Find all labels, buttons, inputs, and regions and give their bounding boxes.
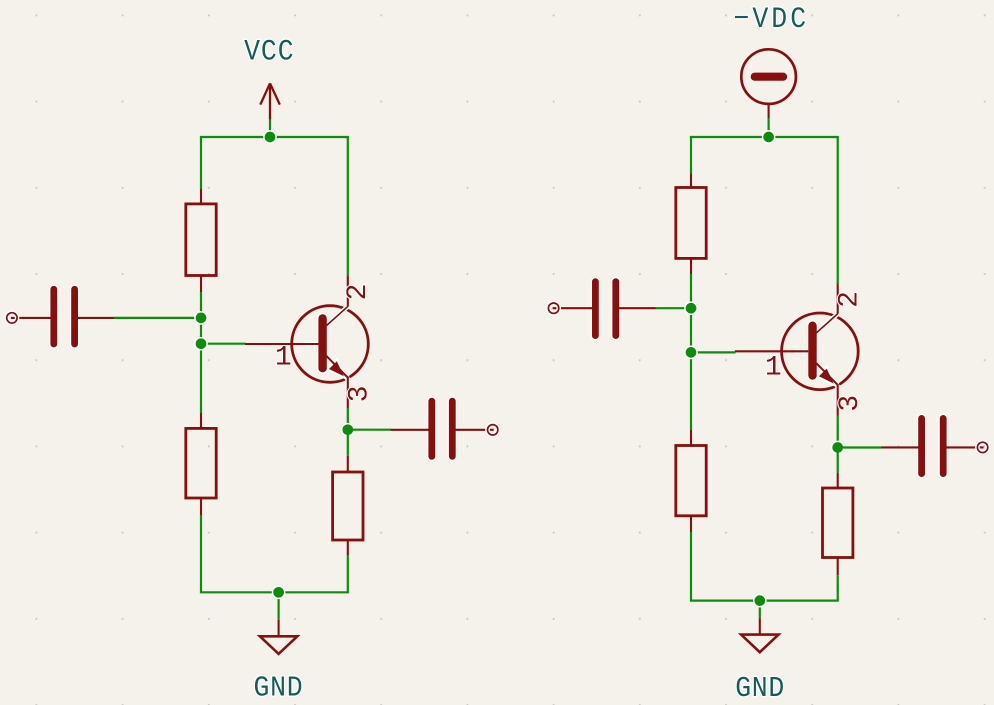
wire [690, 274, 692, 430]
wire [837, 137, 839, 284]
svg-text:1: 1 [765, 352, 782, 383]
wire [690, 136, 839, 138]
wire [347, 556, 349, 593]
resistor R6 [823, 473, 853, 576]
wire [837, 415, 839, 447]
wire [838, 446, 882, 448]
wire [837, 575, 839, 600]
capacitor C4 [881, 414, 988, 479]
transistor Q2 [735, 283, 858, 416]
wire [200, 136, 349, 138]
resistor R1 [186, 189, 216, 292]
svg-text:2: 2 [343, 284, 374, 301]
svg-text:3: 3 [835, 395, 866, 412]
wire [347, 430, 349, 456]
wire [200, 137, 202, 189]
wire [200, 591, 349, 593]
wire [200, 515, 202, 592]
wire [347, 137, 349, 276]
wire [656, 307, 691, 309]
wire [114, 317, 201, 319]
junction [685, 346, 697, 358]
wire [278, 592, 280, 620]
resistor R2 [186, 413, 216, 515]
svg-text:−VDC: −VDC [733, 2, 809, 37]
svg-text:GND: GND [254, 673, 304, 705]
wire [201, 343, 246, 345]
capacitor C3 [548, 277, 656, 340]
wire [269, 120, 271, 137]
svg-text:1: 1 [275, 342, 292, 373]
wire [767, 118, 769, 137]
ground [741, 618, 778, 652]
wire [759, 601, 761, 619]
junction [763, 131, 775, 143]
junction [832, 441, 844, 453]
junction [195, 338, 207, 350]
wire [691, 351, 736, 353]
transistor Q1 [245, 275, 368, 408]
ground [260, 620, 297, 654]
power symbol -VDC [741, 49, 796, 118]
svg-text:VCC: VCC [244, 34, 294, 69]
capacitor C2 [391, 397, 498, 462]
wire [347, 408, 349, 430]
wire [837, 448, 839, 473]
wire [690, 137, 692, 173]
junction [754, 595, 766, 607]
resistor R4 [676, 173, 706, 274]
svg-text:GND: GND [735, 673, 785, 705]
power flag VCC [260, 83, 280, 119]
svg-text:2: 2 [834, 291, 865, 308]
resistor R5 [676, 430, 706, 532]
junction [195, 312, 207, 324]
junction [342, 424, 354, 436]
wire [348, 429, 391, 431]
junction [685, 302, 697, 314]
capacitor C1 [7, 285, 115, 349]
junction [264, 131, 276, 143]
resistor R3 [333, 456, 363, 556]
wire [200, 292, 202, 413]
junction [273, 586, 285, 598]
svg-text:3: 3 [344, 385, 375, 402]
wire [690, 599, 839, 601]
wire [690, 532, 692, 601]
